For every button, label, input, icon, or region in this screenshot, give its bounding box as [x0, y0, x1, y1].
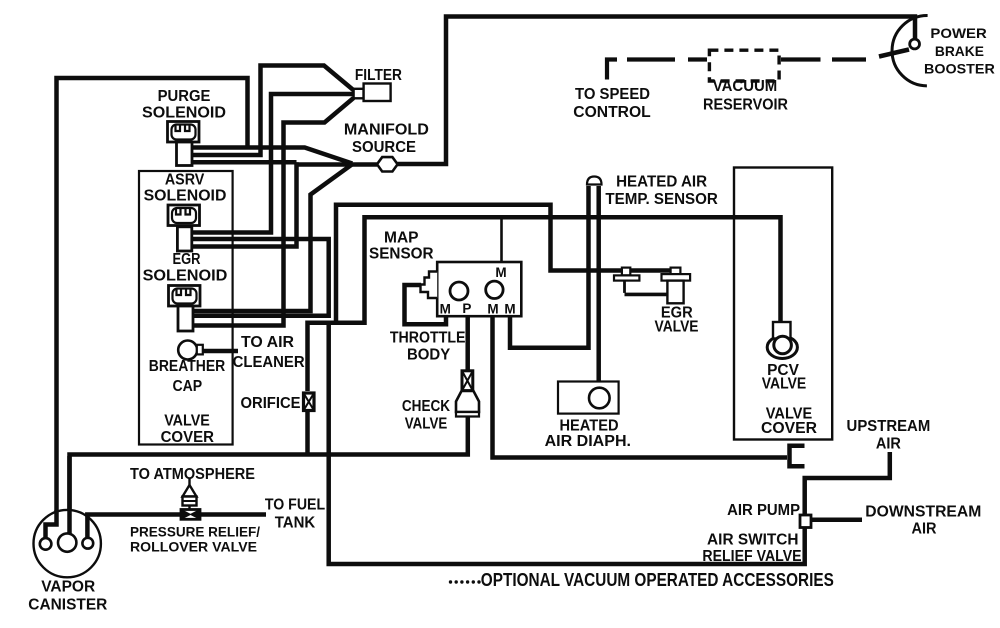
- svg-text:RESERVOIR: RESERVOIR: [703, 97, 788, 114]
- svg-text:M: M: [504, 302, 515, 317]
- svg-text:MANIFOLD: MANIFOLD: [344, 121, 429, 138]
- svg-text:PRESSURE RELIEF/: PRESSURE RELIEF/: [130, 524, 260, 540]
- svg-text:BODY: BODY: [407, 346, 450, 363]
- svg-text:DOWNSTREAM: DOWNSTREAM: [865, 504, 981, 521]
- svg-text:SOLENOID: SOLENOID: [142, 105, 226, 122]
- EGR solenoid U3 connector: [169, 286, 201, 332]
- svg-text:M: M: [487, 302, 498, 317]
- svg-text:THROTTLE: THROTTLE: [390, 329, 466, 346]
- svg-text:CANISTER: CANISTER: [28, 597, 107, 614]
- wire heated air temp sensor to heated air diaph: [596, 186, 601, 389]
- svg-text:MAP: MAP: [384, 230, 419, 247]
- svg-text:OPTIONAL VACUUM OPERATED ACCES: OPTIONAL VACUUM OPERATED ACCESSORIES: [481, 570, 834, 590]
- svg-text:SOLENOID: SOLENOID: [144, 188, 227, 205]
- svg-text:TEMP. SENSOR: TEMP. SENSOR: [605, 191, 718, 208]
- heated air diaph circle: [589, 388, 610, 409]
- svg-text:SOURCE: SOURCE: [352, 139, 416, 156]
- to atmosphere funnel: [183, 479, 197, 510]
- wire dashed to speed control corner: [607, 60, 617, 80]
- wire downstream air: [811, 518, 862, 523]
- svg-text:TO AIR: TO AIR: [241, 334, 294, 351]
- svg-text:VALVE: VALVE: [762, 376, 807, 393]
- vacuum reservoir dashed box: [709, 50, 779, 81]
- svg-text:VAPOR: VAPOR: [41, 579, 95, 596]
- power brake booster arc: [892, 15, 928, 85]
- valve cover bracket (upstream connector): [790, 444, 805, 469]
- svg-text:CLEANER: CLEANER: [233, 354, 305, 371]
- PCV valve: [767, 322, 797, 358]
- wire MAP port M1 loop to throttle body connector: [405, 285, 447, 324]
- wire dashed angled segment to booster: [879, 50, 909, 57]
- wire rollover valve line right segment to fuel tank: [200, 512, 266, 517]
- wire EGR valve line from corner tee: [336, 205, 672, 324]
- wire tee junction down to ASRV port3: [192, 162, 297, 246]
- manifold source hexagon fitting: [377, 157, 398, 171]
- wire purge solenoid port2 up to filter: [192, 66, 355, 156]
- svg-text:AIR SWITCH: AIR SWITCH: [707, 532, 799, 549]
- EGR valve: [662, 268, 691, 304]
- svg-text:TO FUEL: TO FUEL: [265, 496, 325, 513]
- wire vapor canister hose up and over to purge port1 tee: [57, 78, 248, 512]
- wire dashed vacuum line segments: [627, 57, 866, 61]
- svg-text:TANK: TANK: [275, 514, 316, 531]
- dotted prefix for caption: [449, 580, 481, 583]
- canister stub middle (fuel-tank line riser): [67, 456, 72, 535]
- wire accessories bottom run from orifice-line tee to air pump: [329, 323, 805, 564]
- svg-text:M: M: [495, 265, 506, 280]
- purge solenoid U1 connector: [168, 122, 200, 166]
- svg-text:VACUUM: VACUUM: [713, 78, 778, 95]
- valve cover box right: [734, 168, 832, 440]
- MAP sensor circle left: [450, 282, 468, 300]
- svg-text:FILTER: FILTER: [355, 67, 402, 84]
- svg-text:AIR: AIR: [912, 521, 937, 538]
- svg-text:RELIEF VALVE: RELIEF VALVE: [702, 548, 801, 565]
- canister stub right (atmosphere line riser): [85, 513, 90, 541]
- wire MAP port P to check valve: [465, 316, 470, 371]
- wire EGR solenoid port1 to manifold source junction: [192, 164, 352, 311]
- svg-text:BRAKE: BRAKE: [935, 43, 984, 59]
- pressure relief / rollover valve bowtie: [181, 510, 200, 520]
- wire ASRV port1 to filter: [192, 94, 354, 233]
- svg-text:CHECK: CHECK: [402, 398, 451, 415]
- svg-text:HEATED AIR: HEATED AIR: [616, 174, 707, 191]
- orifice symbol: [304, 393, 315, 411]
- breather cap: [178, 341, 197, 360]
- svg-text:VALVE: VALVE: [164, 412, 210, 429]
- wire manifold source to power brake booster (top run): [398, 17, 916, 165]
- svg-text:P: P: [462, 301, 471, 316]
- EGR transducer: [614, 268, 667, 295]
- vapor canister: [33, 456, 100, 577]
- MAP sensor box: [437, 262, 521, 316]
- power brake booster port circle: [910, 39, 920, 49]
- svg-text:BREATHER: BREATHER: [149, 358, 226, 375]
- svg-text:TO SPEED: TO SPEED: [575, 86, 650, 103]
- svg-text:AIR DIAPH.: AIR DIAPH.: [545, 433, 631, 450]
- canister stub left (from purge hose): [46, 510, 57, 540]
- wire check valve bottom to vapor canister via long run: [70, 417, 468, 534]
- ASRV solenoid U2 connector: [168, 205, 200, 251]
- MAP sensor circle right: [486, 281, 503, 298]
- wire MAP port M2 to valve cover bracket: [493, 316, 788, 457]
- check valve symbol: [456, 371, 479, 417]
- svg-text:VALVE: VALVE: [655, 319, 699, 336]
- heated air diaph box: [558, 382, 619, 414]
- svg-text:EGR: EGR: [173, 251, 201, 268]
- svg-text:AIR PUMP: AIR PUMP: [727, 502, 800, 519]
- svg-text:COVER: COVER: [161, 429, 215, 446]
- heated air temp sensor cap: [587, 177, 602, 185]
- svg-text:SOLENOID: SOLENOID: [143, 268, 228, 285]
- wire orifice bottom tick: [305, 411, 310, 455]
- wire EGR solenoid port3 to filter: [192, 98, 354, 326]
- valve cover box left: [139, 171, 233, 445]
- svg-text:HEATED: HEATED: [559, 417, 618, 434]
- svg-text:M: M: [440, 302, 451, 317]
- svg-text:SENSOR: SENSOR: [369, 246, 434, 263]
- svg-text:CAP: CAP: [172, 378, 202, 395]
- wire orifice to long horizontal to PCV valve: [308, 217, 781, 391]
- svg-text:CONTROL: CONTROL: [573, 104, 651, 121]
- wire upstream air to air pump: [805, 452, 890, 515]
- wire rollover valve line left segment with canister riser: [87, 515, 181, 539]
- svg-text:TO ATMOSPHERE: TO ATMOSPHERE: [130, 466, 255, 483]
- svg-text:PURGE: PURGE: [158, 88, 211, 105]
- wire purge solenoid port1 diagonal to manifold junction: [192, 148, 353, 164]
- wire purge solenoid port3 to manifold source: [192, 162, 378, 164]
- svg-text:UPSTREAM: UPSTREAM: [847, 418, 931, 435]
- svg-text:ASRV: ASRV: [165, 172, 205, 189]
- svg-text:ORIFICE: ORIFICE: [241, 395, 301, 412]
- wire breather cap to air cleaner stub: [203, 349, 238, 354]
- wire MAP sensor M top port riser: [500, 217, 503, 262]
- svg-text:VALVE: VALVE: [405, 415, 448, 432]
- svg-text:POWER: POWER: [930, 25, 986, 41]
- throttle body stepped connector: [421, 272, 438, 299]
- wire MAP port M3 to heated air temp sensor: [510, 186, 589, 348]
- filter body: [354, 89, 364, 99]
- wire ASRV port2 to EGR solenoid port2: [192, 239, 329, 316]
- svg-text:ROLLOVER VALVE: ROLLOVER VALVE: [130, 539, 257, 555]
- svg-text:COVER: COVER: [761, 420, 817, 437]
- air pump square: [800, 515, 811, 528]
- svg-text:AIR: AIR: [876, 436, 901, 453]
- svg-text:BOOSTER: BOOSTER: [924, 61, 995, 77]
